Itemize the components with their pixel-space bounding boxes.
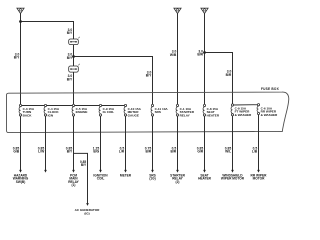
svg-text:L/R: L/R xyxy=(119,150,125,154)
svg-text:GAUGE: GAUGE xyxy=(128,113,139,117)
svg-text:HEATER: HEATER xyxy=(207,113,220,117)
svg-text:G/B: G/B xyxy=(13,150,19,154)
svg-text:& WASHER: & WASHER xyxy=(261,113,278,117)
svg-text:W/L: W/L xyxy=(225,150,231,154)
svg-text:B/R: B/R xyxy=(226,73,232,77)
svg-text:BACK: BACK xyxy=(23,113,33,117)
svg-text:COIL: COIL xyxy=(97,177,105,181)
svg-text:IGN: IGN xyxy=(48,113,54,117)
svg-text:WIPER MOTOR: WIPER MOTOR xyxy=(221,177,245,181)
svg-text:L/W: L/W xyxy=(38,150,45,154)
svg-text:B/G: B/G xyxy=(93,150,99,154)
svg-text:G/R: G/R xyxy=(197,150,203,154)
svg-text:(1): (1) xyxy=(72,183,76,187)
svg-text:ENGINE: ENGINE xyxy=(76,110,88,114)
svg-text:B/Y: B/Y xyxy=(67,77,73,81)
svg-text:IG COIL: IG COIL xyxy=(103,110,115,114)
svg-text:B/R: B/R xyxy=(171,150,177,154)
svg-text:L/B: L/B xyxy=(252,150,258,154)
svg-text:W/B: W/B xyxy=(170,53,177,57)
svg-text:RELAY: RELAY xyxy=(180,113,191,117)
svg-text:B/Y: B/Y xyxy=(81,163,87,167)
svg-text:(1G): (1G) xyxy=(149,177,155,181)
svg-text:B/Y: B/Y xyxy=(14,56,20,60)
svg-text:SRS: SRS xyxy=(155,110,161,114)
svg-text:(2): (2) xyxy=(176,180,180,184)
svg-text:MOTOR: MOTOR xyxy=(253,177,266,181)
svg-text:(IG): (IG) xyxy=(84,211,89,215)
svg-text:SW(B): SW(B) xyxy=(16,180,26,184)
svg-text:B/Y: B/Y xyxy=(67,31,73,35)
svg-text:& WASHER: & WASHER xyxy=(235,113,252,117)
svg-text:B/R: B/R xyxy=(197,53,203,57)
svg-text:FUSE BOX: FUSE BOX xyxy=(261,87,280,91)
svg-text:B/Y: B/Y xyxy=(146,74,152,78)
svg-text:HEATER: HEATER xyxy=(198,177,212,181)
svg-text:B/R: B/R xyxy=(146,150,152,154)
svg-text:METER: METER xyxy=(120,174,132,178)
svg-text:B/Y: B/Y xyxy=(67,56,73,60)
svg-text:B/Y: B/Y xyxy=(67,150,73,154)
